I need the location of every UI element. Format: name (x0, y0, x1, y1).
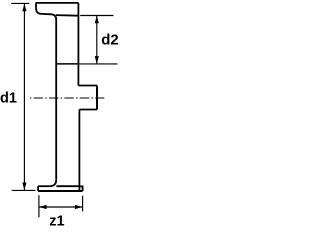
flange top edge (36, 2, 79, 4)
z1 dimension line (39, 206, 82, 208)
hub outer face (96, 86, 98, 110)
d2 bottom extension line (78, 63, 117, 65)
flange underside (right of wall) (56, 14, 79, 17)
d2 top arrowhead (95, 16, 99, 24)
d2 dimension line (96, 16, 98, 63)
hub top step (78, 85, 97, 87)
svg-text:d1: d1 (0, 91, 17, 107)
rim left wall (55, 19, 57, 180)
svg-text:z1: z1 (49, 214, 64, 230)
flange lip (top-left) (36, 3, 42, 14)
d1 bottom arrowhead (22, 183, 26, 191)
rim inner shoulder (56, 63, 78, 65)
d1 top arrowhead (22, 4, 26, 12)
d1 top extension line (11, 2, 29, 4)
bottom face (38, 190, 83, 192)
svg-text:d2: d2 (101, 31, 119, 48)
d1 dimension line (23, 4, 25, 190)
bottom lip left edge (37, 186, 39, 191)
d1 bottom extension line (12, 189, 36, 191)
z1 right extension line (82, 196, 84, 212)
z1 right arrowhead (75, 205, 83, 209)
z1 left extension line (38, 195, 40, 217)
d2 top extension line (80, 15, 113, 17)
hub bottom step (79, 109, 97, 111)
bottom plate floor (56, 185, 79, 187)
body right edge (upper) (77, 3, 79, 86)
centerline (30, 97, 104, 99)
bottom lip top (38, 185, 50, 187)
flange underside (left, curving into wall) (42, 14, 56, 20)
d2 bottom arrowhead (95, 56, 99, 64)
z1 left arrowhead (39, 205, 47, 209)
body right edge (lower) (78, 110, 80, 192)
bottom fillet (50, 180, 56, 186)
bottom step right edge (79, 186, 82, 191)
